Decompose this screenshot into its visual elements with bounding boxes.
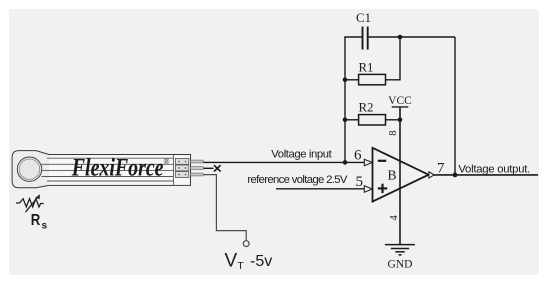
pin 7 output arrow <box>429 172 434 178</box>
svg-text:®: ® <box>164 157 170 166</box>
FlexiForce label <box>71 153 170 181</box>
capacitor C1 <box>363 27 368 50</box>
junction dot R2 left <box>343 118 348 123</box>
junction dot output <box>453 173 458 178</box>
wire top right <box>369 36 455 38</box>
junction dot C1/R1 feedback <box>398 35 403 40</box>
wire output <box>433 174 538 176</box>
pin 5 input arrow <box>364 186 372 192</box>
VCC symbol <box>392 106 409 108</box>
junction dot bus/pin6 <box>343 160 348 165</box>
svg-text:V: V <box>225 251 238 272</box>
wire VT (bottom pin to terminal) <box>204 175 247 241</box>
terminal VT <box>243 241 249 247</box>
sensor pins <box>191 160 204 176</box>
sensor sensing pad <box>17 157 41 181</box>
svg-text:GND: GND <box>388 258 413 270</box>
wire VCC to pin8 through op-amp to pin4 <box>399 107 401 245</box>
op-amp non-inverting input marker <box>378 184 387 193</box>
wire pin5 (reference) <box>276 188 365 190</box>
resistor R1 <box>359 74 386 84</box>
op-amp inverting input marker <box>378 160 386 162</box>
resistor R2 <box>359 115 386 125</box>
pin 6 input arrow <box>364 159 372 165</box>
FlexiForce sensor body <box>12 151 190 188</box>
junction dot R2/VCC <box>398 118 403 123</box>
svg-text:C1: C1 <box>356 11 371 25</box>
svg-text:R2: R2 <box>359 101 374 115</box>
wire R2 left <box>345 119 359 121</box>
svg-text:FlexiForce: FlexiForce <box>71 153 164 181</box>
svg-text:4: 4 <box>389 215 400 221</box>
svg-text:R1: R1 <box>359 60 374 74</box>
svg-text:B: B <box>388 167 397 182</box>
svg-text:VCC: VCC <box>388 95 412 107</box>
sensor connector <box>174 155 189 186</box>
sensor traces <box>42 158 174 181</box>
ground GND <box>385 245 415 255</box>
VT label <box>225 251 273 273</box>
svg-text:Voltage input: Voltage input <box>271 148 332 160</box>
svg-text:5: 5 <box>356 174 364 190</box>
wire right bus <box>454 37 456 175</box>
svg-text:R: R <box>31 212 41 229</box>
svg-text:Voltage output.: Voltage output. <box>458 164 530 176</box>
wire R1 left <box>345 79 359 81</box>
wire R1 right <box>386 37 401 80</box>
resistor RS symbol <box>16 194 44 212</box>
op-amp U1B triangle <box>373 148 429 202</box>
svg-text:-5v: -5v <box>250 253 272 270</box>
node X unconnected middle pin <box>204 165 221 171</box>
svg-text:reference voltage 2.5V: reference voltage 2.5V <box>247 174 347 186</box>
wire left bus <box>344 37 346 162</box>
wire R2 right <box>386 119 401 121</box>
wire top left <box>344 36 361 38</box>
svg-text:T: T <box>238 261 244 272</box>
sensor tail inner area <box>49 155 190 185</box>
RS label <box>31 212 48 232</box>
svg-text:s: s <box>42 221 48 232</box>
svg-text:6: 6 <box>354 148 362 164</box>
svg-text:8: 8 <box>388 131 399 136</box>
junction dot R1 left <box>343 78 348 83</box>
wire pin6 (voltage input) <box>204 161 365 163</box>
